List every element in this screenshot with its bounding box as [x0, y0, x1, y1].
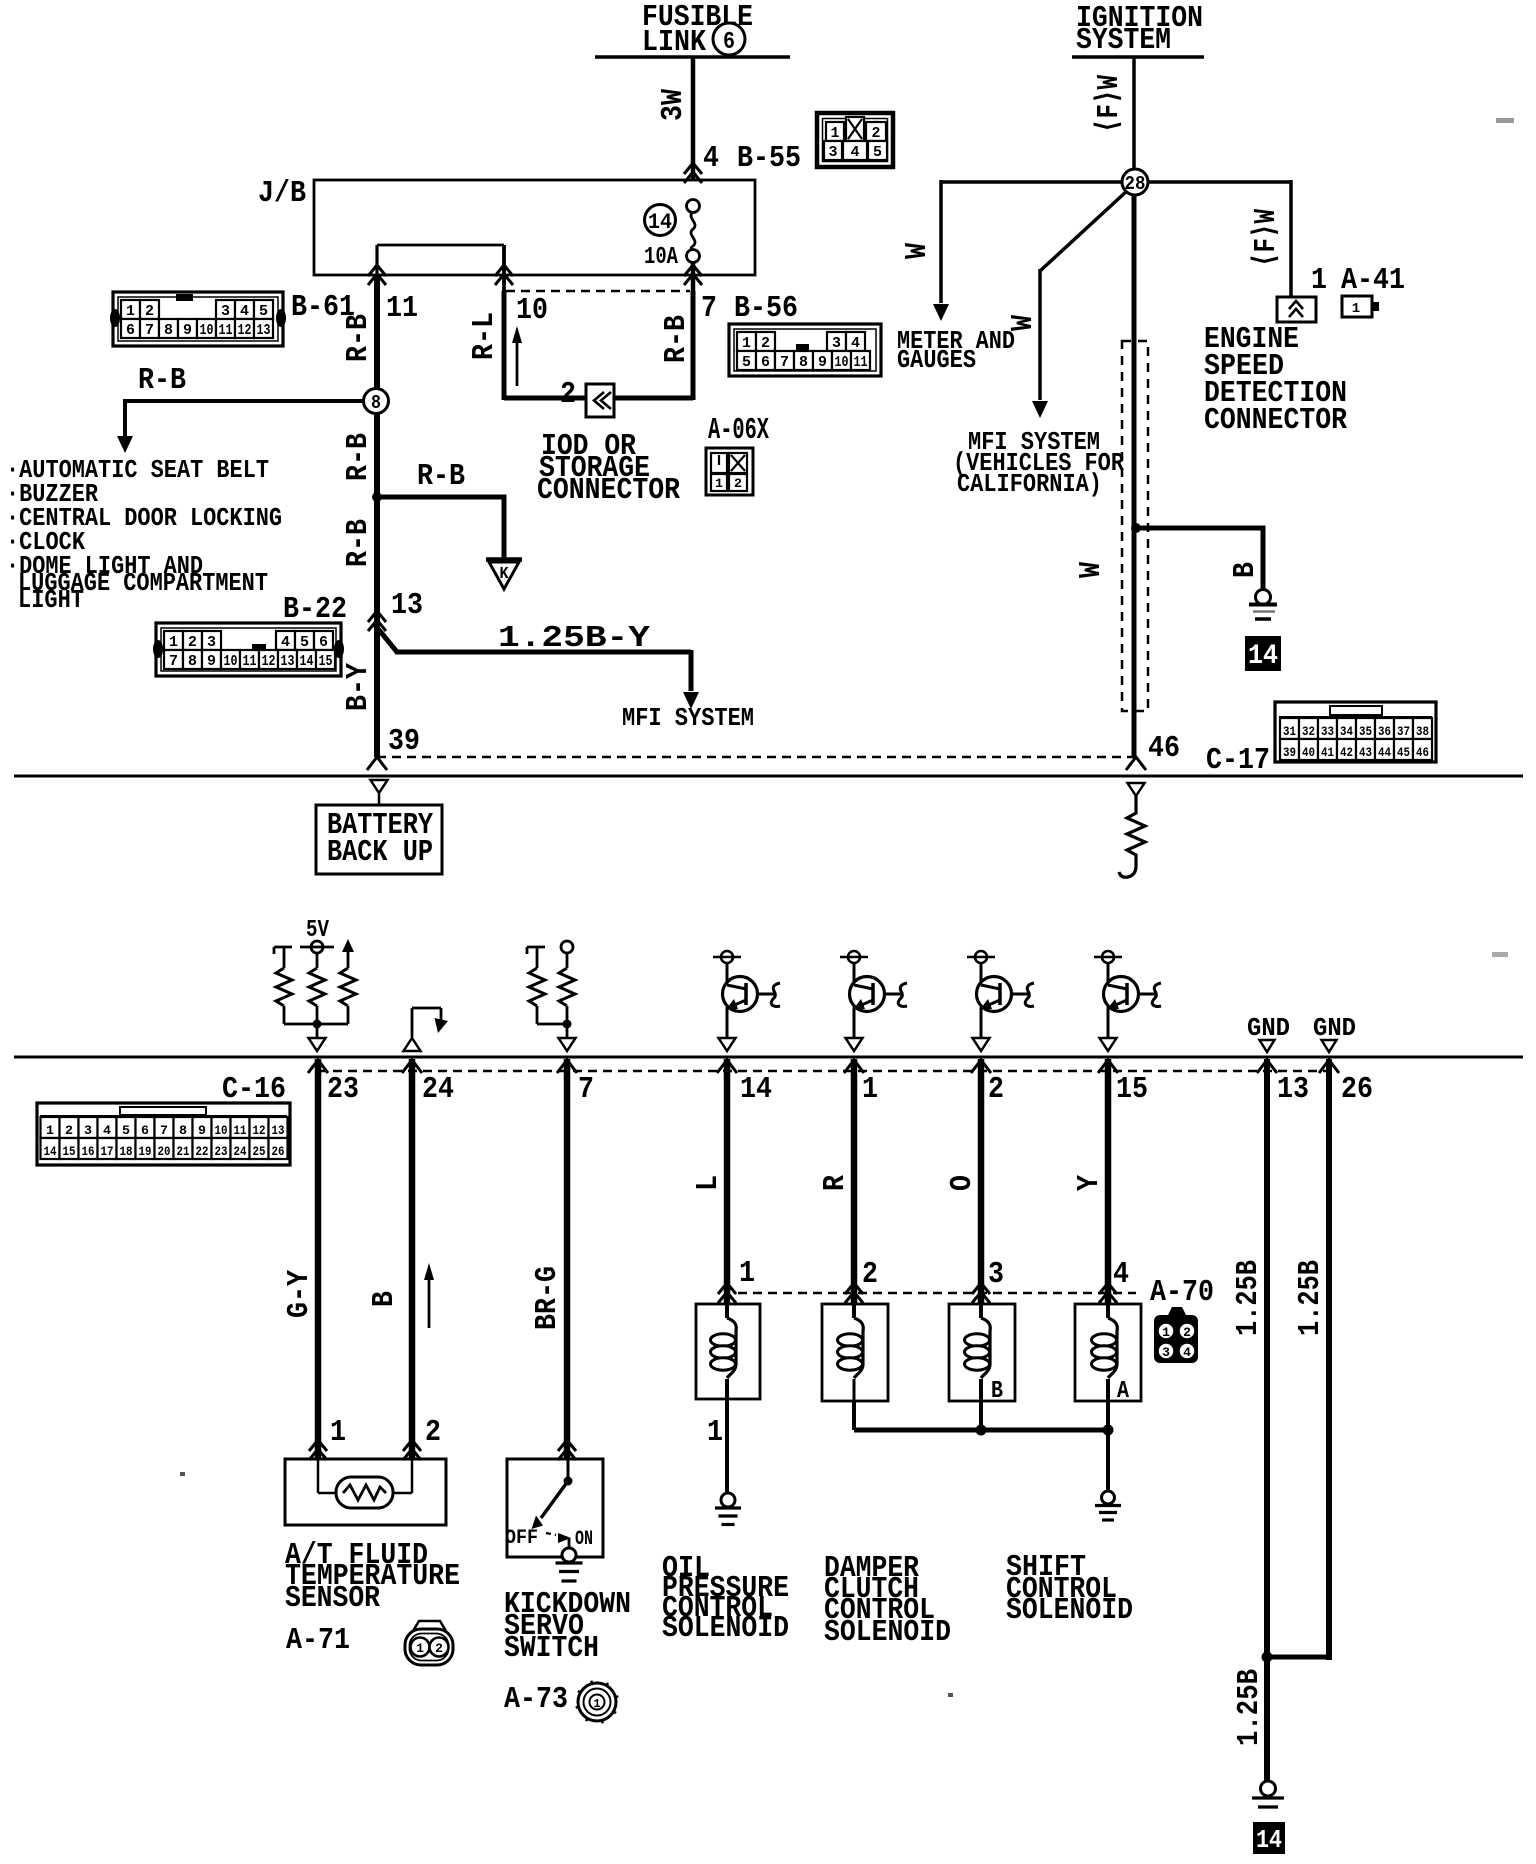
IOD connector symbol — [586, 384, 614, 417]
svg-text:L: L — [691, 1175, 726, 1191]
chevron at ECU pin 39 — [367, 757, 387, 770]
terminal triangle pin 13 — [1260, 1040, 1275, 1052]
fusible link header underline — [595, 55, 790, 59]
svg-text:9: 9 — [183, 322, 192, 339]
IOD loop right wire R-B — [691, 291, 696, 400]
main ignition wire W down to ECU — [1132, 195, 1137, 757]
chevron and pin 13 label at C-16 — [1257, 1060, 1277, 1073]
svg-text:33: 33 — [1321, 724, 1334, 739]
svg-text:A-06X: A-06X — [708, 413, 769, 448]
svg-text:LIGHT: LIGHT — [18, 585, 84, 615]
svg-text:1.25B-Y: 1.25B-Y — [498, 621, 650, 656]
svg-text:1.25B: 1.25B — [1293, 1260, 1328, 1336]
terminal triangle pin 7 — [559, 1038, 576, 1051]
ignition header underline — [1072, 55, 1204, 59]
svg-text:A-71: A-71 — [286, 1623, 350, 1658]
output transistor for pin 14 oil pressure solenoid — [721, 951, 733, 963]
svg-text:1: 1 — [46, 1123, 54, 1138]
switch lever — [541, 1481, 568, 1518]
svg-text:1: 1 — [739, 1256, 755, 1291]
svg-text:1: 1 — [715, 476, 723, 491]
ground ref 14 black box — [1245, 636, 1281, 671]
wire 3W from fusible link — [691, 57, 696, 181]
svg-text:BACK UP: BACK UP — [327, 835, 433, 870]
svg-text:4: 4 — [240, 303, 249, 320]
svg-text:B-55: B-55 — [737, 141, 801, 176]
junction dot to ground branch — [1131, 523, 1141, 533]
svg-text:3: 3 — [221, 303, 230, 320]
svg-text:1: 1 — [862, 1072, 878, 1107]
wire O from pin 2 — [978, 1059, 985, 1304]
svg-text:46: 46 — [1416, 745, 1429, 760]
scan artifact marks — [1496, 118, 1514, 123]
svg-text:4: 4 — [1113, 1257, 1129, 1292]
A/T fluid temperature sensor box — [285, 1459, 446, 1525]
chevron and pin 24 label at C-16 — [402, 1060, 422, 1073]
svg-text:14: 14 — [44, 1144, 57, 1159]
svg-text:2: 2 — [988, 1072, 1004, 1107]
svg-text:4: 4 — [281, 634, 290, 651]
svg-text:LINK: LINK — [642, 25, 706, 60]
svg-text:R-B: R-B — [341, 433, 376, 481]
IOD loop left wire R-L — [502, 291, 507, 400]
svg-text:10: 10 — [516, 293, 548, 328]
svg-text:45: 45 — [1397, 745, 1410, 760]
svg-text:5: 5 — [742, 354, 751, 371]
svg-text:10A: 10A — [644, 244, 678, 271]
svg-text:2: 2 — [872, 125, 881, 142]
svg-text:⟨F⟩W: ⟨F⟩W — [1092, 75, 1127, 133]
branch wire R-B to K — [377, 495, 504, 500]
svg-text:25: 25 — [253, 1144, 266, 1159]
ECU boundary dashed line bottom — [318, 1070, 1330, 1073]
internal resistor below pin 46 — [1128, 783, 1145, 796]
svg-text:2: 2 — [1183, 1325, 1191, 1340]
ECU long horizontal line bottom — [14, 1056, 1523, 1059]
svg-text:2: 2 — [761, 335, 770, 352]
svg-text:5: 5 — [122, 1123, 130, 1138]
wire through J/B bottom to fuse leg — [691, 262, 696, 291]
svg-text:6: 6 — [126, 322, 135, 339]
chevron at kickdown servo switch — [558, 1440, 576, 1451]
solenoid ground bus wire — [854, 1428, 1108, 1433]
svg-text:3: 3 — [1162, 1345, 1170, 1360]
chevron at A-70 pin 1 — [718, 1283, 736, 1294]
svg-text:R-B: R-B — [341, 314, 376, 362]
svg-text:MFI SYSTEM: MFI SYSTEM — [622, 703, 754, 733]
chevron and pin 15 label at C-16 — [1098, 1060, 1118, 1073]
svg-text:6: 6 — [723, 29, 735, 56]
svg-text:CALIFORNIA): CALIFORNIA) — [957, 469, 1102, 499]
svg-text:7: 7 — [780, 354, 789, 371]
svg-text:CONNECTOR: CONNECTOR — [537, 473, 680, 508]
svg-text:19: 19 — [139, 1144, 152, 1159]
svg-text:22: 22 — [196, 1144, 209, 1159]
ECU boundary dashed line top — [377, 756, 1136, 759]
IOD loop bottom wire left段 — [504, 396, 586, 401]
svg-text:R-B: R-B — [417, 459, 465, 494]
switch contact circle — [568, 1538, 571, 1548]
svg-text:10: 10 — [200, 322, 214, 339]
output transistor for pin 15 shift solenoid A — [1102, 951, 1114, 963]
svg-text:2: 2 — [145, 303, 154, 320]
svg-text:1: 1 — [126, 303, 135, 320]
chevrons at A-71 connector — [309, 1440, 327, 1451]
connector boundary dashed line B-56 — [506, 290, 690, 293]
svg-text:R-B: R-B — [341, 519, 376, 567]
chevron into J/B — [684, 163, 702, 174]
branch wire W to meter and gauges — [941, 180, 1124, 184]
svg-text:8: 8 — [179, 1123, 187, 1138]
engine speed detection connector symbol — [1277, 297, 1316, 322]
svg-text:W: W — [1006, 315, 1041, 331]
svg-text:1: 1 — [831, 125, 840, 142]
wire from ignition system — [1132, 57, 1136, 170]
svg-text:40: 40 — [1302, 745, 1315, 760]
svg-text:14: 14 — [740, 1072, 772, 1107]
svg-text:GAUGES: GAUGES — [897, 345, 976, 375]
svg-text:1: 1 — [330, 1415, 346, 1450]
junction dot to K branch — [372, 492, 382, 502]
svg-text:15: 15 — [319, 653, 333, 670]
svg-text:SYSTEM: SYSTEM — [1076, 23, 1171, 58]
svg-text:GND: GND — [1247, 1013, 1290, 1043]
chevron at ECU pin 46 — [1126, 757, 1146, 770]
shift control solenoid A box — [1075, 1304, 1141, 1401]
svg-text:21: 21 — [177, 1144, 190, 1159]
connector icon B-61 — [113, 292, 283, 346]
svg-text:R-B: R-B — [138, 363, 186, 398]
svg-text:15: 15 — [1116, 1072, 1148, 1107]
connector icon A-70 — [1168, 1307, 1186, 1315]
wire B from pin 24 — [409, 1059, 416, 1459]
svg-text:11: 11 — [386, 291, 418, 326]
chevrons at J/B exits — [368, 265, 386, 276]
svg-text:7: 7 — [169, 653, 178, 670]
wire 1.25B from pin 13 — [1264, 1059, 1270, 1790]
bottom ground symbol — [1261, 1781, 1276, 1796]
svg-text:2: 2 — [425, 1415, 441, 1450]
svg-text:2: 2 — [435, 1641, 443, 1656]
svg-text:18: 18 — [120, 1144, 133, 1159]
connector icon A-73 — [578, 1683, 616, 1721]
wire 1.25B-Y horizontal — [395, 650, 691, 655]
branch wire B to ground — [1136, 526, 1263, 531]
thermistor symbol — [336, 1477, 393, 1508]
svg-text:42: 42 — [1340, 745, 1353, 760]
svg-text:W: W — [900, 243, 935, 259]
svg-text:6: 6 — [761, 354, 770, 371]
svg-text:26: 26 — [1341, 1072, 1373, 1107]
svg-text:3W: 3W — [656, 89, 691, 121]
svg-text:8: 8 — [371, 392, 381, 414]
svg-text:3: 3 — [207, 634, 216, 651]
damper solenoid wire to bus — [852, 1401, 856, 1430]
svg-text:14: 14 — [300, 653, 314, 670]
svg-text:9: 9 — [207, 653, 216, 670]
svg-text:2: 2 — [862, 1257, 878, 1292]
svg-text:34: 34 — [1340, 724, 1353, 739]
main wire R-B vertical B-61 pin 11 — [374, 276, 380, 757]
svg-text:8: 8 — [164, 322, 173, 339]
svg-text:23: 23 — [327, 1072, 359, 1107]
svg-text:OFF: OFF — [505, 1527, 538, 1550]
svg-text:12: 12 — [262, 653, 276, 670]
chevron and pin 23 label at C-16 — [308, 1060, 328, 1073]
svg-text:1: 1 — [742, 335, 751, 352]
svg-text:36: 36 — [1378, 724, 1391, 739]
svg-text:J/B: J/B — [258, 176, 306, 211]
internal hook for pin 24 — [411, 1008, 414, 1037]
svg-text:12: 12 — [253, 1123, 266, 1138]
svg-text:⟨F⟩W: ⟨F⟩W — [1249, 209, 1284, 267]
internal 5V resistors for pin 7 — [527, 946, 545, 949]
wire R from pin 1 — [851, 1059, 858, 1304]
shift solenoid ground wire — [1106, 1430, 1110, 1492]
svg-text:B: B — [991, 1378, 1003, 1405]
svg-text:2: 2 — [734, 476, 742, 491]
svg-text:11: 11 — [234, 1123, 247, 1138]
ground symbol right — [1256, 590, 1271, 605]
svg-text:1: 1 — [707, 1415, 723, 1450]
svg-text:5: 5 — [873, 144, 882, 161]
wire BR-G from pin 7 — [564, 1059, 571, 1459]
branch wire W to MFI system diagonal — [1040, 190, 1128, 271]
wire L from pin 14 — [724, 1059, 731, 1304]
chevron at A-70 pin 4 — [1099, 1283, 1117, 1294]
svg-text:15: 15 — [63, 1144, 76, 1159]
svg-text:GND: GND — [1313, 1013, 1356, 1043]
fuse 14 10A symbol — [687, 200, 700, 213]
svg-text:4: 4 — [1183, 1345, 1191, 1360]
svg-text:3: 3 — [84, 1123, 92, 1138]
shift control solenoid B box — [949, 1304, 1015, 1401]
solenoid connector dashed boundary — [738, 1292, 1136, 1295]
svg-text:12: 12 — [238, 322, 252, 339]
svg-text:44: 44 — [1378, 745, 1391, 760]
svg-text:1: 1 — [593, 1697, 600, 1711]
shift solenoid ground symbol — [1102, 1491, 1115, 1504]
svg-text:R: R — [818, 1175, 853, 1191]
scan artifact specks — [180, 1472, 185, 1476]
svg-text:B-Y: B-Y — [341, 663, 376, 711]
battery backup box — [316, 805, 442, 874]
svg-text:SOLENOID: SOLENOID — [824, 1615, 951, 1650]
svg-text:24: 24 — [234, 1144, 247, 1159]
output transistor for pin 2 shift solenoid B — [975, 951, 987, 963]
svg-text:17: 17 — [101, 1144, 114, 1159]
svg-text:2: 2 — [560, 377, 576, 412]
svg-text:R-L: R-L — [467, 312, 502, 360]
svg-text:CONNECTOR: CONNECTOR — [1204, 403, 1347, 438]
svg-text:A-73: A-73 — [504, 1682, 568, 1717]
svg-text:10: 10 — [224, 653, 238, 670]
svg-text:6: 6 — [319, 634, 328, 651]
connector icon C-16 — [37, 1103, 290, 1165]
svg-text:B: B — [1228, 562, 1263, 578]
svg-text:SENSOR: SENSOR — [285, 1581, 380, 1616]
svg-text:16: 16 — [82, 1144, 95, 1159]
junction block J/B box — [314, 180, 755, 275]
svg-text:B-56: B-56 — [734, 291, 798, 326]
svg-text:10: 10 — [215, 1123, 228, 1138]
wire Y from pin 15 — [1105, 1059, 1112, 1304]
svg-text:7: 7 — [160, 1123, 168, 1138]
svg-text:8: 8 — [799, 354, 808, 371]
connector icon C-17 — [1275, 702, 1436, 762]
svg-text:37: 37 — [1397, 724, 1410, 739]
oil solenoid lower wire — [725, 1379, 729, 1494]
node 8 junction circle — [364, 389, 389, 414]
svg-text:1: 1 — [169, 634, 178, 651]
terminal triangle pin 26 — [1322, 1040, 1337, 1052]
connector icon B-22 — [156, 623, 341, 676]
direction arrow up in IOD loop — [516, 341, 519, 386]
wire 26 elbow to pin 13 wire — [1267, 1655, 1329, 1660]
svg-text:7: 7 — [145, 322, 154, 339]
wire 1.25B-Y branch diagonal — [375, 625, 397, 652]
svg-text:11: 11 — [219, 322, 233, 339]
K pointer symbol — [486, 557, 522, 562]
connector icon B-56 — [729, 324, 881, 376]
oil solenoid ground — [721, 1493, 735, 1507]
svg-text:SOLENOID: SOLENOID — [662, 1611, 789, 1646]
svg-text:35: 35 — [1359, 724, 1372, 739]
svg-text:1.25B: 1.25B — [1231, 1260, 1266, 1336]
J/B internal branch bus — [377, 244, 504, 247]
svg-text:4: 4 — [103, 1123, 111, 1138]
svg-text:26: 26 — [272, 1144, 285, 1159]
svg-text:13: 13 — [391, 588, 423, 623]
svg-text:2: 2 — [188, 634, 197, 651]
node 28 circle — [1122, 169, 1148, 195]
svg-text:43: 43 — [1359, 745, 1372, 760]
oil pressure control solenoid box — [696, 1304, 760, 1399]
junction dot shift B — [976, 1425, 987, 1436]
svg-text:8: 8 — [188, 653, 197, 670]
svg-text:13: 13 — [257, 322, 271, 339]
arrow to ON — [558, 1533, 571, 1543]
arrow to accessory list — [117, 436, 133, 453]
svg-text:13: 13 — [272, 1123, 285, 1138]
svg-text:11: 11 — [854, 354, 868, 371]
output transistor for pin 1 damper clutch solenoid — [848, 951, 860, 963]
svg-text:SOLENOID: SOLENOID — [1006, 1593, 1133, 1628]
circled 6 symbol — [713, 23, 745, 55]
IOD loop bottom wire right段 — [614, 396, 693, 401]
svg-text:4: 4 — [851, 144, 860, 161]
svg-text:4: 4 — [851, 335, 860, 352]
connector icon A-06X — [706, 448, 753, 495]
svg-text:1: 1 — [1162, 1325, 1170, 1340]
svg-text:4: 4 — [703, 141, 719, 176]
svg-text:13: 13 — [281, 653, 295, 670]
wire 1.25B from pin 26 — [1326, 1059, 1332, 1660]
svg-text:24: 24 — [422, 1072, 454, 1107]
svg-text:7: 7 — [578, 1072, 594, 1107]
svg-text:Y: Y — [1072, 1175, 1107, 1191]
svg-text:46: 46 — [1148, 731, 1180, 766]
svg-text:9: 9 — [198, 1123, 206, 1138]
svg-text:O: O — [945, 1175, 980, 1191]
chevron and pin 14 label at C-16 — [717, 1060, 737, 1073]
connector icon A-71 — [413, 1621, 446, 1631]
dashed shield box on ignition wire — [1122, 341, 1148, 711]
svg-text:1: 1 — [1352, 301, 1360, 317]
svg-text:C-17: C-17 — [1206, 743, 1270, 778]
svg-text:9: 9 — [818, 354, 827, 371]
circled 14 fuse number — [645, 205, 676, 236]
svg-text:23: 23 — [215, 1144, 228, 1159]
svg-text:3: 3 — [988, 1257, 1004, 1292]
svg-text:11: 11 — [243, 653, 257, 670]
svg-text:28: 28 — [1125, 173, 1146, 195]
chevron and pin 2 label at C-16 — [971, 1060, 991, 1073]
terminal triangle pin 24 — [404, 1038, 421, 1051]
svg-text:1.25B: 1.25B — [1232, 1669, 1267, 1746]
svg-text:W: W — [1074, 562, 1109, 578]
ground ref 14 black box bottom — [1253, 1822, 1285, 1854]
junction dot 1.25B — [1262, 1652, 1273, 1663]
branch wire to engine speed connector — [1146, 180, 1291, 184]
svg-text:ON: ON — [575, 1528, 593, 1551]
chevron at B-22 — [368, 611, 386, 622]
svg-text:SWITCH: SWITCH — [504, 1631, 599, 1666]
svg-text:41: 41 — [1321, 745, 1334, 760]
svg-text:32: 32 — [1302, 724, 1315, 739]
chevron at A-70 pin 3 — [972, 1283, 990, 1294]
direction arrow up beside wire B — [428, 1277, 431, 1328]
chevron and pin 26 label at C-16 — [1319, 1060, 1339, 1073]
svg-text:14: 14 — [648, 210, 672, 235]
svg-text:39: 39 — [1283, 745, 1296, 760]
svg-text:6: 6 — [141, 1123, 149, 1138]
svg-text:1: 1 — [416, 1641, 424, 1656]
svg-text:A-41: A-41 — [1341, 263, 1405, 298]
svg-text:14: 14 — [1248, 641, 1278, 672]
ECU long horizontal line top — [14, 775, 1523, 778]
kickdown servo switch box — [507, 1459, 603, 1557]
svg-text:2: 2 — [65, 1123, 73, 1138]
svg-text:G-Y: G-Y — [282, 1270, 317, 1318]
damper clutch control solenoid box — [822, 1304, 888, 1401]
battery backup terminal triangle — [371, 780, 388, 793]
svg-text:14: 14 — [1256, 1825, 1282, 1855]
svg-text:3: 3 — [832, 335, 841, 352]
svg-text:A-70: A-70 — [1150, 1275, 1214, 1310]
terminal triangle pin 23 — [309, 1038, 326, 1051]
svg-text:13: 13 — [1277, 1072, 1309, 1107]
svg-text:31: 31 — [1283, 724, 1296, 739]
svg-text:K: K — [500, 565, 510, 584]
arrow to MFI system — [683, 692, 699, 709]
svg-text:5: 5 — [300, 634, 309, 651]
svg-text:5: 5 — [259, 303, 268, 320]
wire G-Y from pin 23 — [315, 1059, 322, 1459]
chevron and pin 7 label at C-16 — [557, 1060, 577, 1073]
svg-text:BR-G: BR-G — [530, 1266, 565, 1330]
svg-text:R-B: R-B — [659, 315, 694, 363]
svg-text:38: 38 — [1416, 724, 1429, 739]
svg-text:10: 10 — [835, 354, 849, 371]
svg-text:A: A — [1117, 1378, 1129, 1405]
chevron at A-70 pin 2 — [845, 1283, 863, 1294]
svg-text:1: 1 — [1311, 263, 1327, 298]
branch wire R-B to accessories — [125, 399, 364, 403]
connector icon B-55 — [817, 113, 893, 167]
svg-text:39: 39 — [388, 724, 420, 759]
chevron and pin 1 label at C-16 — [844, 1060, 864, 1073]
